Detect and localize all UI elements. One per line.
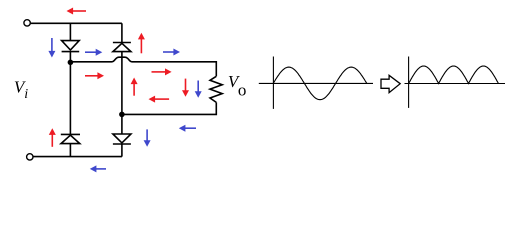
svg-text:i: i [24,87,28,102]
wire bottom horizontal [33,156,122,158]
blue arrow A13 down beside D4 [144,129,151,146]
label Vo [228,72,247,100]
wire top-left vertical drop [69,23,71,40]
diode D4 bottom-right (pointing down) [113,134,131,157]
input terminal bottom [27,154,33,160]
waveform input sine [273,67,367,100]
waveform input axes [259,57,373,109]
node B junction dot right [119,112,125,118]
blue arrow A12 left on return wire [179,125,196,132]
blue arrow A5 right of D2 [163,49,180,56]
red arrow A9 down through load [182,79,189,97]
red arrow A8 up center [131,78,138,96]
node A junction dot left [68,60,74,66]
label Vi [14,77,28,102]
wire output top with hop over vertical [70,57,216,76]
red arrow A14 up beside D3 [49,128,56,147]
diode D3 bottom-left (pointing up) [61,134,80,156]
red arrow A4 up beside D2 [138,33,145,54]
waveform output rectified [409,66,499,84]
red arrow A6 right below node A [85,72,104,79]
wire output bottom [122,102,216,114]
diode D2 top-right (pointing up) [113,43,131,115]
blue arrow A15 left along bottom wire [90,165,106,172]
wire top horizontal [31,22,122,24]
wire top-right vertical [121,23,123,42]
waveform output axes [405,57,506,108]
resistor R load [210,76,222,102]
blue arrow A3 right of D1 [85,49,102,56]
input terminal top [24,20,30,26]
blue arrow A10 down through load [195,81,202,98]
red arrow A7 right toward load [152,68,172,75]
svg-text:o: o [238,80,247,99]
diode D1 top-left (pointing down) [62,41,80,62]
blue arrow A2 down beside D1 [48,38,55,58]
red arrow A11 left on return wire [149,96,170,103]
red arrow A1 left along top wire [67,8,87,15]
wire right vertical to D4 [121,114,123,134]
block arrow between waveforms [381,75,400,92]
wire left vertical to D3 [69,62,71,134]
